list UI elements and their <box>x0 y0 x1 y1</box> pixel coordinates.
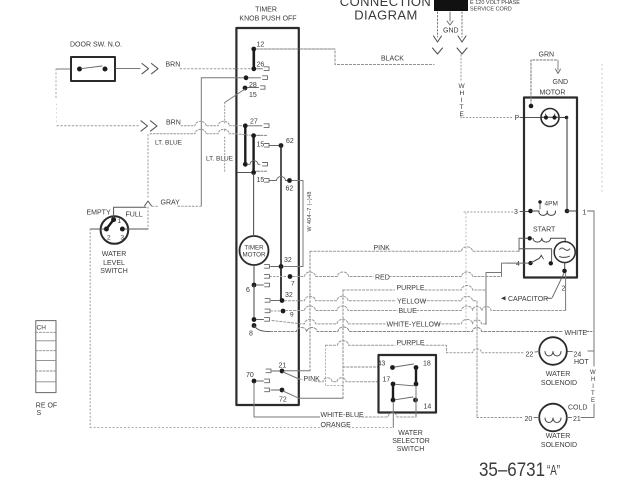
water selector switch box <box>379 355 437 413</box>
svg-text:WHITE-BLUE: WHITE-BLUE <box>321 412 365 419</box>
contact 15a <box>248 86 266 89</box>
terminal 32L <box>280 298 285 303</box>
wire wls left down (orange) <box>89 229 91 428</box>
svg-text:RE OF: RE OF <box>36 403 57 410</box>
svg-text:27: 27 <box>250 119 258 126</box>
svg-text:GRAY: GRAY <box>161 200 181 207</box>
svg-text:LT. BLUE: LT. BLUE <box>155 140 183 147</box>
service wire right (dashed with arrow) <box>461 12 463 37</box>
svg-text:GND: GND <box>553 79 569 86</box>
gray wire <box>152 205 159 207</box>
svg-text:SWITCH: SWITCH <box>397 446 425 453</box>
svg-text:35–6731: 35–6731 <box>479 460 545 480</box>
wire 28 left to gray <box>201 78 243 206</box>
title CONNECTION DIAGRAM <box>340 0 431 23</box>
water level switch circle <box>101 216 129 244</box>
24 tap <box>588 350 594 352</box>
left terminal strip <box>36 321 56 393</box>
terminal 26 <box>251 66 256 71</box>
wire PURPLE row 1 <box>343 277 486 291</box>
svg-text:H: H <box>591 377 595 383</box>
wire wls top <box>114 207 146 217</box>
svg-text:DOOR SW. N.O.: DOOR SW. N.O. <box>70 42 122 49</box>
4PM label <box>538 200 541 203</box>
ORANGE label <box>320 421 347 428</box>
svg-text:72: 72 <box>279 397 287 404</box>
svg-text:BLUE: BLUE <box>399 308 418 315</box>
svg-text:SERVICE CORD: SERVICE CORD <box>470 7 512 13</box>
svg-text:RED: RED <box>375 275 390 282</box>
wire door switch out <box>116 68 140 70</box>
svg-text:TIMER: TIMER <box>255 7 277 14</box>
water level switch label <box>100 251 128 275</box>
wire motor 1 to right rail <box>567 210 576 212</box>
motor box <box>524 98 577 278</box>
svg-text:CAPACITOR: CAPACITOR <box>508 296 548 303</box>
blade 14 <box>396 397 414 400</box>
rail 43/72 vertical <box>342 290 344 398</box>
terminal 15a <box>243 86 248 91</box>
svg-text:21: 21 <box>573 416 581 423</box>
svg-text:BLACK: BLACK <box>381 56 404 63</box>
bar F down <box>252 136 254 173</box>
svg-text:SELECTOR: SELECTOR <box>392 438 430 445</box>
blade 17 <box>396 384 414 386</box>
dot 43 <box>390 365 395 370</box>
wire 70 down and right <box>254 383 320 417</box>
dot 18 <box>414 365 419 370</box>
svg-text:E: E <box>460 111 465 118</box>
svg-text:HOT: HOT <box>574 359 590 366</box>
terminal H <box>251 170 256 175</box>
wire timer motor down <box>253 265 255 285</box>
start coil <box>528 236 532 240</box>
door switch terminals <box>77 67 82 72</box>
svg-text:9: 9 <box>290 312 294 319</box>
svg-text:3: 3 <box>514 209 518 216</box>
terminal 27 <box>243 123 248 128</box>
svg-text:LEVEL: LEVEL <box>103 260 125 267</box>
grn ground bracket <box>531 60 558 105</box>
rail 62 right of timer <box>302 181 304 267</box>
timer box <box>236 28 298 405</box>
wire into 4 <box>507 262 528 264</box>
svg-text:YELLOW: YELLOW <box>397 299 427 306</box>
part number 35-6731 "A" <box>479 460 560 480</box>
svg-text:MOTOR: MOTOR <box>540 90 566 97</box>
terminal 6 <box>252 283 257 288</box>
svg-text:E 120 VOLT PHASE: E 120 VOLT PHASE <box>470 0 520 6</box>
rail pink vertical <box>309 251 311 370</box>
door switch blade <box>82 66 103 69</box>
wls blade <box>106 220 113 229</box>
wire BRN2 row <box>57 125 139 127</box>
hot solenoid circle <box>539 337 567 365</box>
wire motor right column down <box>566 118 568 212</box>
chevrons BRN1 <box>142 64 158 74</box>
wire 8b curve to white row <box>254 326 270 332</box>
svg-text:H: H <box>460 90 465 97</box>
chevron connector right <box>457 48 467 54</box>
svg-text:62: 62 <box>286 186 294 193</box>
water solenoid label (cold) <box>541 433 577 449</box>
contact G + wire to 62a <box>265 144 280 148</box>
water solenoid label (hot) <box>541 371 577 387</box>
svg-text:18: 18 <box>423 361 431 368</box>
svg-text:E: E <box>591 398 595 404</box>
start switch blade <box>531 256 542 264</box>
start coil left loop <box>519 238 552 261</box>
svg-text:2: 2 <box>107 235 111 242</box>
terminal 7 <box>288 274 293 279</box>
svg-text:PINK: PINK <box>374 245 391 252</box>
svg-text:WATER: WATER <box>102 251 127 258</box>
capacitor circle <box>554 242 575 263</box>
wire 12 out <box>256 48 335 50</box>
purple2 drop left <box>326 345 343 385</box>
wire wls left <box>90 228 104 230</box>
svg-text:START: START <box>533 227 556 234</box>
svg-text:WATER: WATER <box>546 433 571 440</box>
svg-text:S: S <box>37 410 42 417</box>
svg-text:T: T <box>460 104 464 111</box>
svg-text:32: 32 <box>285 292 293 299</box>
motor ground dot <box>529 104 534 109</box>
terminal F (blue row) <box>251 133 256 138</box>
dot 17 <box>391 382 396 387</box>
contact 26 <box>257 67 270 71</box>
service wire left (dashed with arrow) <box>437 12 439 37</box>
svg-text:26: 26 <box>257 62 265 69</box>
svg-text:4PM: 4PM <box>545 201 558 208</box>
start switch right contact dot <box>549 261 553 265</box>
timer motor circle <box>240 236 269 265</box>
svg-text:WATER: WATER <box>546 371 571 378</box>
svg-text:MOTOR: MOTOR <box>243 252 266 259</box>
terminal row 164 <box>243 162 248 167</box>
svg-text:4: 4 <box>516 261 520 268</box>
svg-text:COLD: COLD <box>568 405 587 412</box>
svg-text:62: 62 <box>286 138 294 145</box>
bar 12-26 <box>253 49 256 69</box>
svg-text:P: P <box>515 115 520 122</box>
svg-text:EMPTY: EMPTY <box>87 210 111 217</box>
motor run circle <box>541 109 559 127</box>
service cord plug <box>434 0 468 11</box>
wire 72 diag out <box>283 391 343 398</box>
wire YELLOW row <box>285 296 478 417</box>
wire RED row <box>293 272 502 277</box>
svg-text:1: 1 <box>118 218 122 225</box>
terminal 32u <box>279 264 284 269</box>
svg-text:21: 21 <box>279 363 287 370</box>
svg-text:BRN: BRN <box>166 120 181 127</box>
wire BRN2 to 27 with humps <box>181 121 243 126</box>
svg-text:SOLENOID: SOLENOID <box>541 442 577 449</box>
wire 15a diagonal down <box>225 89 245 103</box>
svg-text:15: 15 <box>257 142 265 149</box>
selector label <box>392 430 430 453</box>
terminal 8b <box>252 323 257 328</box>
svg-text:43: 43 <box>378 361 386 368</box>
svg-text:SWITCH: SWITCH <box>100 268 128 275</box>
chevron water level <box>145 201 152 206</box>
stub 17 column down through box <box>392 402 394 428</box>
terminal 62a <box>279 143 284 148</box>
rail pink to start coil <box>518 238 520 251</box>
blade 43-18 <box>395 364 414 367</box>
terminal 12 <box>251 47 256 52</box>
stub 14 column down <box>415 386 417 417</box>
svg-text:BRN: BRN <box>166 62 181 69</box>
svg-text:“A”: “A” <box>547 462 560 479</box>
wire WHITE-YELLOW row <box>272 319 486 324</box>
svg-text:I: I <box>461 97 463 104</box>
TIMER heading <box>239 7 296 23</box>
wls terminals <box>111 217 116 222</box>
terminal 72 <box>280 388 285 393</box>
contact F <box>257 134 267 136</box>
chevrons BRN2 <box>141 121 157 131</box>
svg-text:1: 1 <box>583 210 587 217</box>
wire 62b out right and down <box>292 181 303 267</box>
wire WHITE-BLUE <box>358 413 417 417</box>
svg-text:WHITE: WHITE <box>565 330 588 337</box>
svg-text:22: 22 <box>526 352 534 359</box>
svg-text:GRN: GRN <box>539 52 555 59</box>
capacitor bottom wire <box>564 263 566 269</box>
terminal 8a <box>252 317 257 322</box>
door switch box <box>71 57 115 81</box>
wire 2 down to blue row <box>565 274 567 311</box>
bar 27 down <box>244 126 246 165</box>
wire PURPLE row 2 <box>326 341 447 353</box>
rail purple1 step <box>486 265 502 325</box>
svg-text:8: 8 <box>249 331 253 338</box>
svg-text:PURPLE: PURPLE <box>397 340 425 347</box>
svg-text:12: 12 <box>257 42 265 49</box>
wire WHITE row <box>270 327 563 332</box>
svg-text:WHITE-YELLOW: WHITE-YELLOW <box>387 322 441 329</box>
wire white branch to motor 3 <box>464 211 513 213</box>
dot 17 bottom <box>391 398 396 403</box>
dot 14 <box>413 398 418 403</box>
svg-text:DIAGRAM: DIAGRAM <box>354 8 417 23</box>
rail red step to start 4 <box>502 263 508 276</box>
svg-text:CH: CH <box>37 325 47 332</box>
contact I + wire to 62b with hump <box>265 177 288 183</box>
terminal 70 <box>252 379 257 384</box>
svg-text:14: 14 <box>424 404 432 411</box>
right rail vertical <box>593 211 595 366</box>
start switch terminal 4 <box>528 261 532 265</box>
svg-text:17: 17 <box>383 377 391 384</box>
terminal 21 <box>280 369 285 374</box>
wire wls right <box>125 228 149 230</box>
scan artifact vertical <box>601 64 603 192</box>
svg-text:FULL: FULL <box>126 212 143 219</box>
wire cold 21 to right rail <box>567 417 572 419</box>
terminal 62b <box>287 178 292 183</box>
bar 17 down <box>392 384 394 400</box>
WHITE vertical letters right rail <box>590 370 596 404</box>
svg-text:6: 6 <box>246 287 250 294</box>
svg-text:20: 20 <box>525 416 533 423</box>
wls numbers <box>107 218 125 242</box>
LT BLUE corner down <box>147 135 149 200</box>
svg-text:PINK: PINK <box>304 376 321 383</box>
hot feed wire <box>447 349 525 353</box>
wire chevron to switch 3 <box>147 207 149 229</box>
cold solenoid circle <box>539 404 567 432</box>
gnd arrow from plug <box>447 12 453 25</box>
wire into door switch <box>56 68 70 70</box>
contact 28 <box>249 76 268 80</box>
terminal 28 <box>244 75 249 80</box>
wire WHITE service to motor P <box>461 55 512 118</box>
svg-text:7: 7 <box>291 281 295 288</box>
svg-text:24: 24 <box>574 352 582 359</box>
WHITE-BLUE label <box>320 411 358 418</box>
svg-text:2: 2 <box>562 286 566 293</box>
wire LT BLUE row to F with humps <box>150 129 250 135</box>
wire BLUE row <box>286 306 566 311</box>
contact 27 <box>248 124 269 128</box>
dot 18 bottom <box>414 382 419 387</box>
svg-text:KNOB PUSH OFF: KNOB PUSH OFF <box>239 16 296 23</box>
bar 18 down <box>415 368 417 385</box>
svg-text:GND: GND <box>443 28 459 35</box>
cold feed wire <box>477 417 523 419</box>
svg-text:LT. BLUE: LT. BLUE <box>206 156 234 163</box>
wire BLACK from timer 12 to plug <box>257 49 434 65</box>
svg-text:PURPLE: PURPLE <box>397 285 425 292</box>
svg-text:SOLENOID: SOLENOID <box>541 380 577 387</box>
svg-text:TIMER: TIMER <box>244 245 264 252</box>
2 label <box>560 283 568 292</box>
wire 43 branch <box>343 366 379 368</box>
wire H down to timer motor <box>253 174 255 236</box>
terminal 9 <box>281 309 286 314</box>
svg-text:ORANGE: ORANGE <box>321 422 352 429</box>
svg-text:32: 32 <box>284 257 292 264</box>
wire 21 diag out <box>283 372 299 379</box>
WHITE vertical letters <box>459 83 466 118</box>
svg-text:W: W <box>459 83 466 90</box>
wire PINK to selector 17 <box>299 378 379 382</box>
wire BRN1 to 26 <box>180 68 251 70</box>
svg-text:T: T <box>591 391 595 397</box>
wire PINK row <box>310 239 519 251</box>
wire ORANGE <box>90 427 391 429</box>
svg-text:WATER: WATER <box>398 430 423 437</box>
svg-text:15: 15 <box>249 92 257 99</box>
wire P into motor <box>520 117 542 119</box>
svg-text:W 404–7 (–)48: W 404–7 (–)48 <box>307 191 313 231</box>
wire 6 down <box>253 285 255 320</box>
motor main coil <box>533 211 556 215</box>
PINK label 2 <box>303 374 320 381</box>
bar 32u-32L <box>280 267 282 301</box>
svg-text:W: W <box>590 370 596 376</box>
CAPACITOR callout <box>501 296 506 300</box>
chevron connector left <box>433 48 443 54</box>
bar 62a down to 32u <box>280 146 282 267</box>
strip caption <box>36 403 57 418</box>
rail white service corner to motor3/cold <box>465 213 467 332</box>
svg-text:3: 3 <box>121 235 125 242</box>
svg-text:15: 15 <box>257 177 265 184</box>
wire motor circle to right column <box>559 117 567 119</box>
service cord label <box>470 0 520 13</box>
svg-text:70: 70 <box>246 372 254 379</box>
capacitor callout diagonal <box>552 274 564 298</box>
